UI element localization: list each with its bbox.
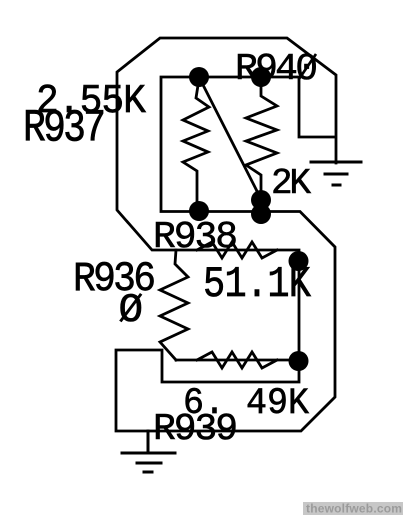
svg-text:2K: 2K [271,163,311,204]
svg-text:Ø: Ø [119,288,144,334]
svg-text:R938: R938 [153,216,236,259]
svg-text:51.1K: 51.1K [203,261,312,310]
svg-text:R939: R939 [153,408,236,451]
svg-text:R937: R937 [23,102,103,154]
svg-text:thewolfweb.com: thewolfweb.com [306,502,402,515]
